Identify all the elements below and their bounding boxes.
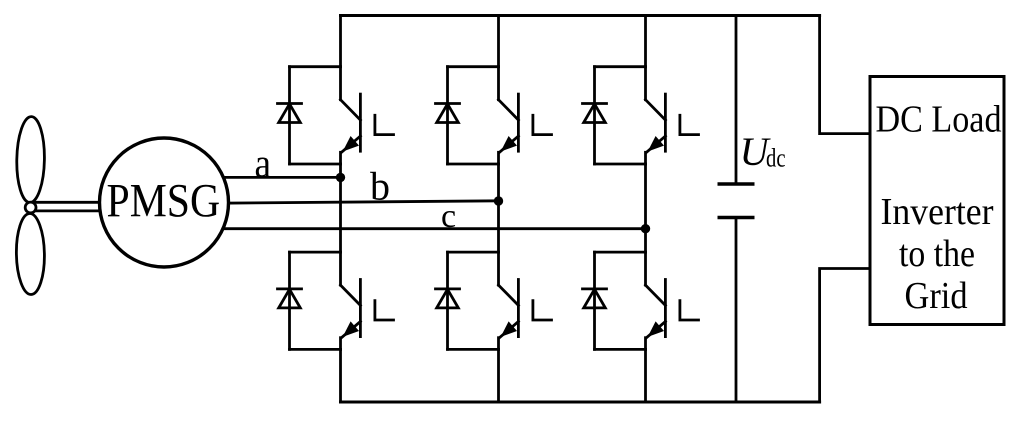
wire: phase b xyxy=(220,201,499,203)
wire: branch top of D2/Q2 xyxy=(290,251,341,254)
svg-text:Inverter: Inverter xyxy=(881,191,994,233)
wire: leg a midpoint vertical xyxy=(339,164,342,252)
svg-text:PMSG: PMSG xyxy=(107,175,221,227)
wire: branch top of D1/Q1 xyxy=(290,65,341,68)
wire: bottom bus to load block xyxy=(820,269,871,403)
diode D2 (anti-parallel freewheel, cathode up) xyxy=(278,252,302,349)
IGBT Q4 xyxy=(499,252,519,349)
wire: branch bottom of D6/Q6 xyxy=(595,348,646,351)
wire: leg a collector drop from top bus xyxy=(339,16,342,67)
IGBT Q6 xyxy=(646,252,666,349)
wire: leg c collector drop from top bus xyxy=(644,16,647,67)
wire: gate lead of Q5 xyxy=(680,115,699,134)
IGBT Q3 xyxy=(499,67,519,164)
wire: positive DC bus (top) xyxy=(341,14,820,17)
diode D6 (anti-parallel freewheel, cathode up) xyxy=(583,252,607,349)
svg-text:a: a xyxy=(255,140,272,186)
turbine hub xyxy=(25,202,36,213)
IGBT Q1 xyxy=(341,67,361,164)
wire: phase c xyxy=(218,227,646,230)
diode D4 (anti-parallel freewheel, cathode up) xyxy=(436,252,460,349)
diode D3 (anti-parallel freewheel, cathode up) xyxy=(436,67,460,164)
svg-text:b: b xyxy=(370,164,390,209)
wire: leg b collector drop from top bus xyxy=(497,16,500,67)
svg-text:DC Load: DC Load xyxy=(876,98,1002,140)
capacitor C (DC link) xyxy=(718,184,755,218)
svg-text:Grid: Grid xyxy=(905,275,968,317)
turbine blade lower xyxy=(16,213,45,294)
node a (junction dot) xyxy=(336,173,345,182)
wire: top bus to load block xyxy=(820,16,871,134)
wire: branch bottom of D4/Q4 xyxy=(448,348,499,351)
wire: branch bottom of D5/Q5 xyxy=(595,163,646,166)
wire: gate lead of Q4 xyxy=(533,301,552,320)
turbine blade upper xyxy=(16,116,45,202)
wire: branch top of D4/Q4 xyxy=(448,251,499,254)
svg-text:dc: dc xyxy=(766,144,786,173)
wire: leg b emitter drop to bottom bus xyxy=(497,349,500,402)
svg-text:to the: to the xyxy=(899,233,975,275)
wire: capacitor bottom lead xyxy=(735,218,738,403)
wire: branch top of D6/Q6 xyxy=(595,251,646,254)
IGBT Q5 xyxy=(646,67,666,164)
diode D5 (anti-parallel freewheel, cathode up) xyxy=(583,67,607,164)
node b (junction dot) xyxy=(494,196,503,205)
wire: gate lead of Q3 xyxy=(533,115,552,134)
wire: leg a emitter drop to bottom bus xyxy=(339,349,342,402)
svg-text:c: c xyxy=(441,198,456,235)
wire: leg b midpoint vertical xyxy=(497,164,500,252)
wire: branch top of D3/Q3 xyxy=(448,65,499,68)
wire: gate lead of Q6 xyxy=(680,301,699,320)
node c (junction dot) xyxy=(641,224,650,233)
wire: capacitor top lead xyxy=(735,16,738,185)
block: DC Load / Inverter to the Grid xyxy=(870,77,1004,325)
IGBT Q2 xyxy=(341,252,361,349)
wire: branch bottom of D3/Q3 xyxy=(448,163,499,166)
label: Udc voltage xyxy=(740,129,786,174)
wire: branch bottom of D2/Q2 xyxy=(290,348,341,351)
shaft (double line) xyxy=(34,202,101,211)
wire: gate lead of Q1 xyxy=(375,115,394,134)
wire: negative DC bus (bottom) xyxy=(341,401,820,404)
wire: leg c emitter drop to bottom bus xyxy=(644,349,647,402)
wire: leg c midpoint vertical xyxy=(644,164,647,252)
wire: branch top of D5/Q5 xyxy=(595,65,646,68)
wire: gate lead of Q2 xyxy=(375,301,394,320)
diode D1 (anti-parallel freewheel, cathode up) xyxy=(278,67,302,164)
wire: branch bottom of D1/Q1 xyxy=(290,163,341,166)
wire: phase a xyxy=(220,176,341,179)
generator PMSG (machine circle) xyxy=(100,138,229,267)
